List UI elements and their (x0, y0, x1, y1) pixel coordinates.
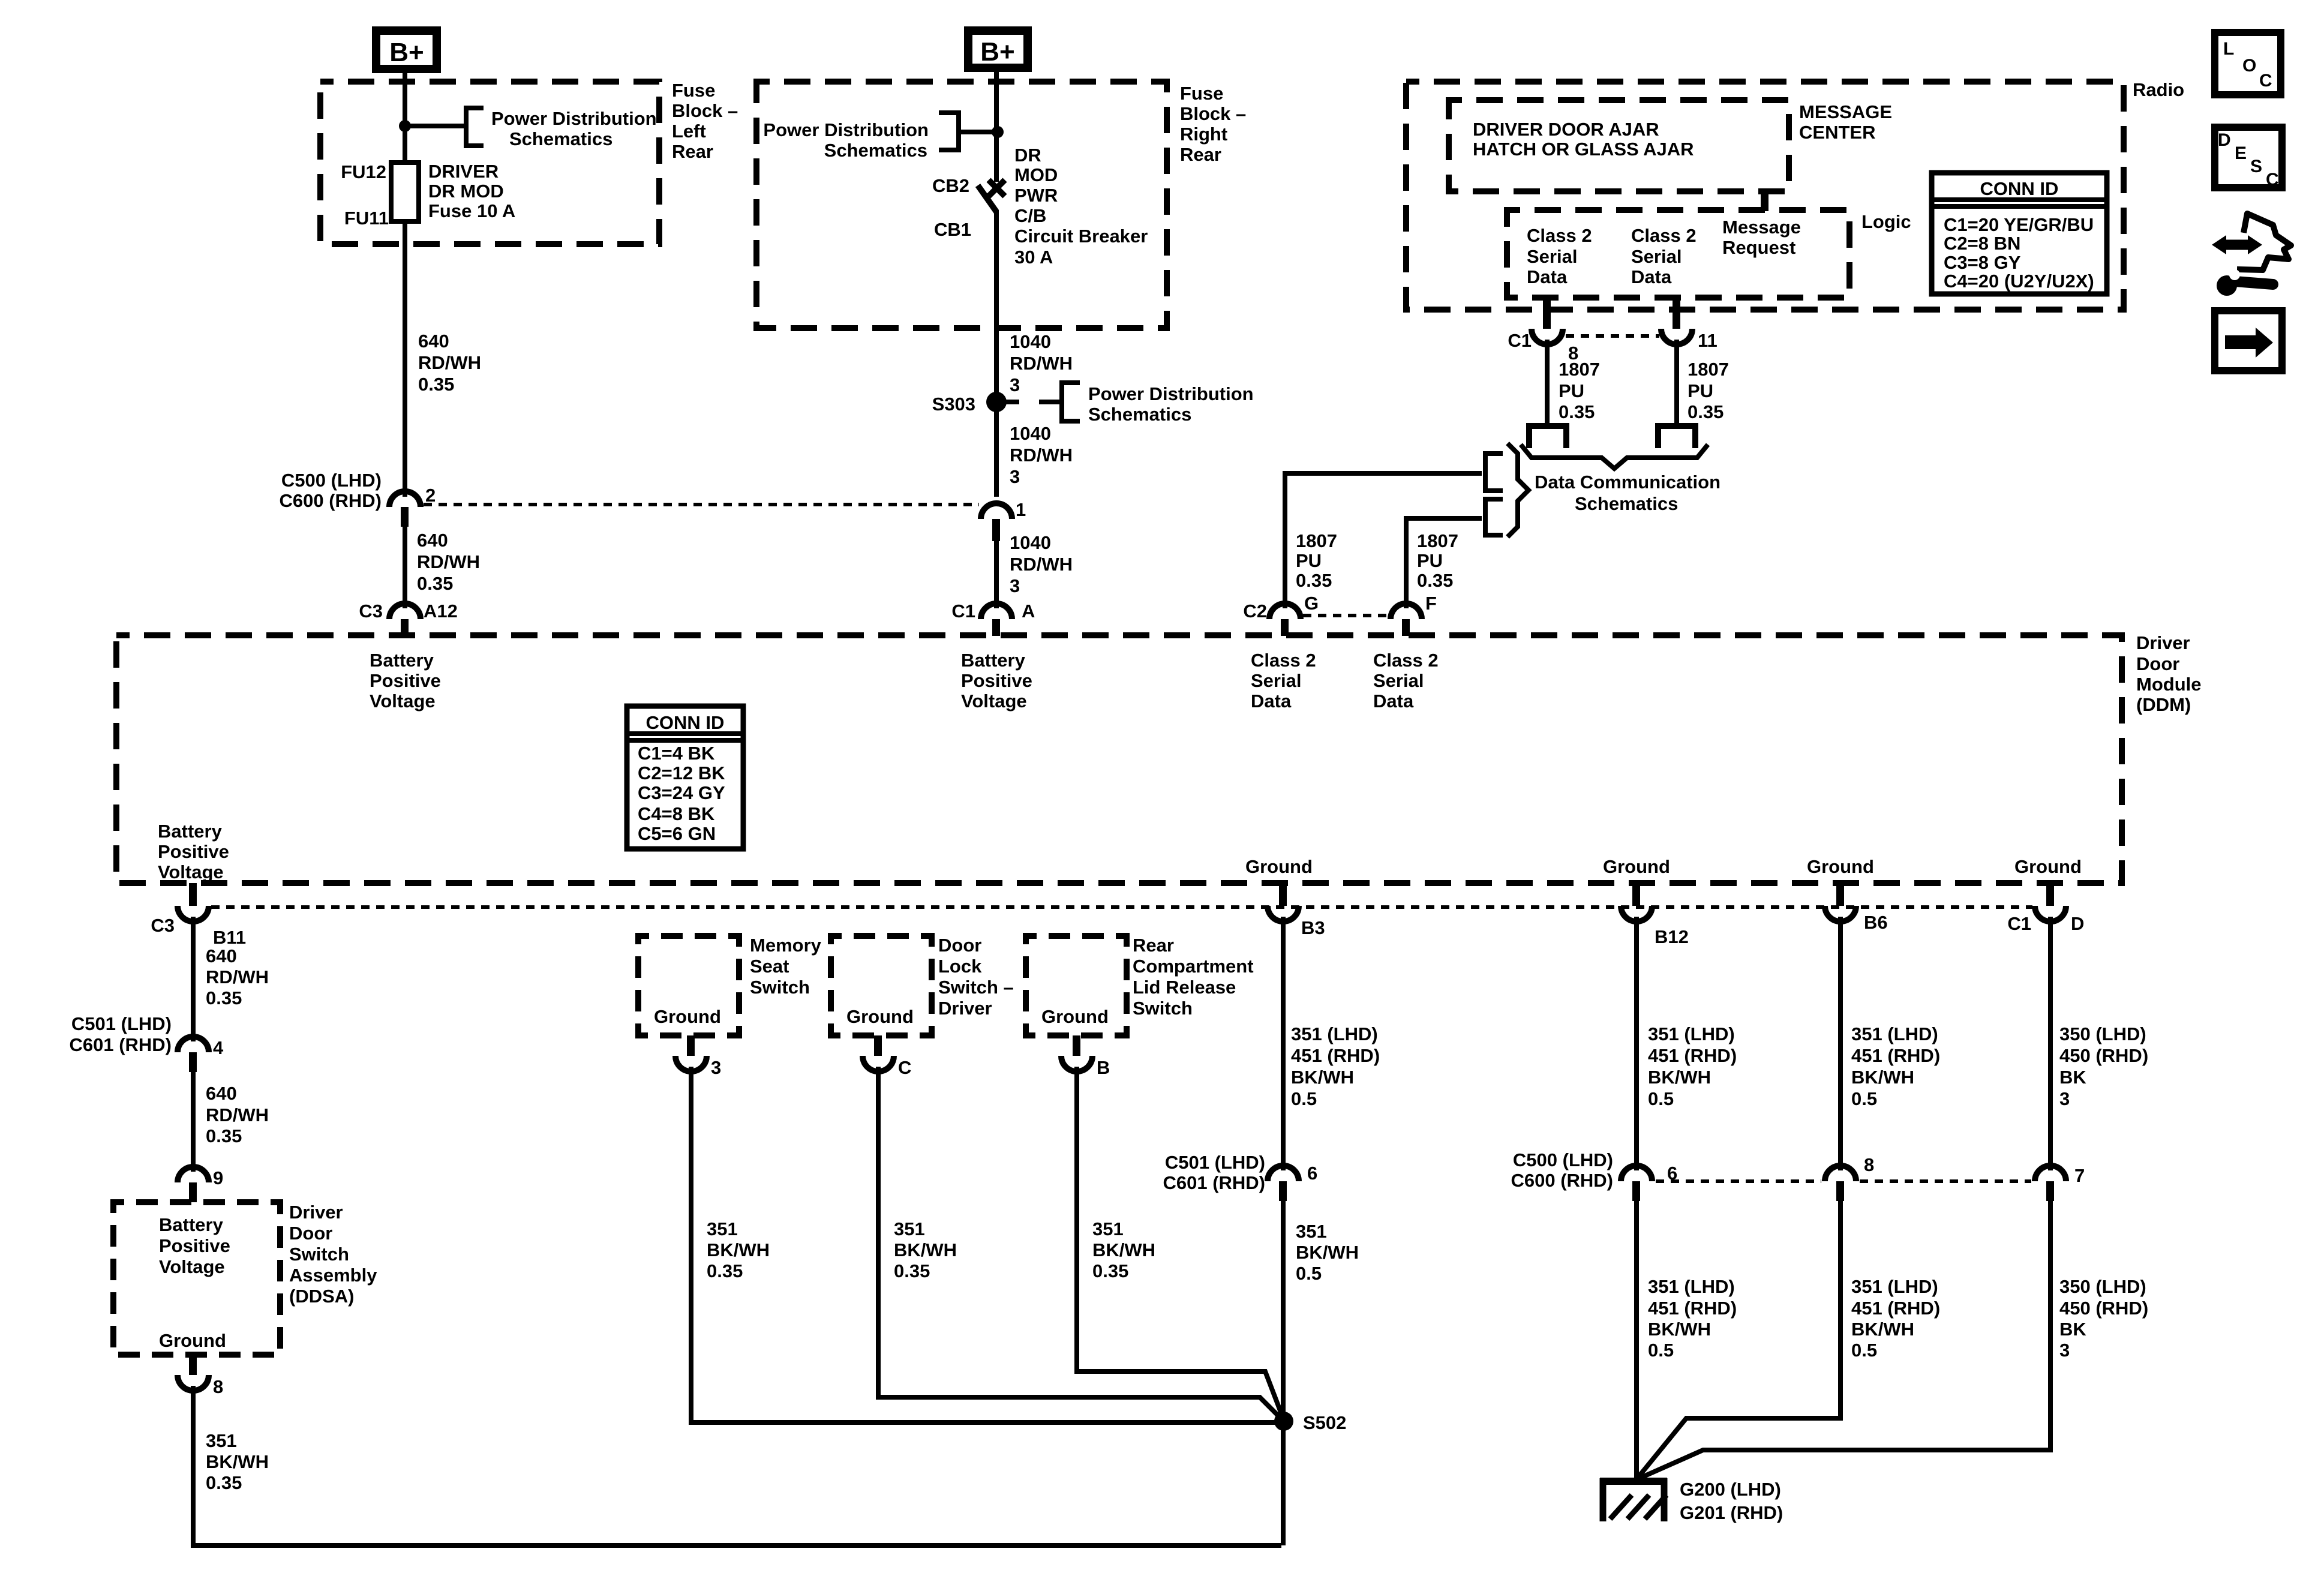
connector C3 / A12 at DDM (359, 601, 458, 636)
svg-text:Fuse 10 A: Fuse 10 A (428, 200, 515, 221)
svg-text:Ground: Ground (159, 1330, 226, 1351)
svg-text:BK/WH: BK/WH (1648, 1319, 1711, 1340)
svg-text:0.5: 0.5 (1648, 1088, 1674, 1109)
dotted connector row line below DDM (211, 905, 2032, 909)
wire pin2 to C3/A12 (403, 527, 407, 608)
svg-text:Rear: Rear (1180, 144, 1221, 165)
svg-text:Left: Left (672, 121, 706, 142)
svg-text:B11: B11 (213, 927, 246, 948)
svg-text:Data: Data (1251, 691, 1292, 712)
svg-text:FU11: FU11 (344, 208, 389, 229)
off-page bracket (G wire, data comm) (1485, 454, 1503, 491)
svg-text:0.35: 0.35 (206, 987, 242, 1008)
svg-text:450 (RHD): 450 (RHD) (2059, 1045, 2148, 1066)
svg-text:4: 4 (213, 1037, 224, 1058)
svg-text:G: G (1304, 593, 1319, 614)
connector C3 / B11 (151, 883, 246, 948)
svg-text:2: 2 (425, 485, 436, 506)
driver door module DDM dashed box (116, 635, 2122, 883)
svg-text:DRIVER: DRIVER (428, 161, 499, 182)
svg-text:350 (LHD): 350 (LHD) (2059, 1023, 2146, 1044)
svg-text:BK/WH: BK/WH (206, 1451, 269, 1472)
connector B6 (1825, 883, 1888, 933)
svg-text:0.35: 0.35 (206, 1472, 242, 1493)
connector C500(LHD)/C600(RHD) pin 6 (1511, 1149, 1677, 1201)
radio pin 11 connector (1661, 298, 1718, 351)
svg-text:B+: B+ (980, 37, 1014, 67)
wire fuse to connector C500 pin2 (403, 221, 407, 497)
svg-text:Voltage: Voltage (159, 1256, 225, 1277)
svg-text:Rear: Rear (1133, 935, 1174, 956)
wire B+ to fuse FU12 (403, 69, 407, 163)
logic dashed box (1507, 210, 1849, 298)
svg-text:Data: Data (1373, 691, 1414, 712)
svg-text:C5=6 GN: C5=6 GN (638, 823, 716, 844)
svg-text:PU: PU (1559, 380, 1584, 401)
svg-text:450 (RHD): 450 (RHD) (2059, 1298, 2148, 1319)
svg-text:351: 351 (707, 1218, 738, 1239)
pin A12 stub into DDM (401, 619, 409, 636)
svg-text:Battery: Battery (370, 650, 434, 671)
svg-text:Ground: Ground (1807, 856, 1874, 877)
svg-text:Radio: Radio (2133, 79, 2184, 100)
svg-text:Door: Door (289, 1223, 332, 1244)
svg-text:(DDSA): (DDSA) (289, 1286, 355, 1307)
svg-text:6: 6 (1307, 1163, 1317, 1184)
svg-text:Memory: Memory (750, 935, 822, 956)
svg-text:Message: Message (1722, 217, 1801, 238)
icon LOC box (2215, 32, 2281, 95)
svg-text:Circuit Breaker: Circuit Breaker (1014, 226, 1148, 247)
svg-text:BK/WH: BK/WH (894, 1239, 957, 1260)
svg-text:1807: 1807 (1417, 530, 1458, 551)
svg-text:3: 3 (2059, 1340, 2070, 1361)
svg-text:S303: S303 (932, 394, 975, 415)
svg-text:Voltage: Voltage (961, 691, 1027, 712)
svg-text:DRIVER DOOR AJAR: DRIVER DOOR AJAR (1473, 119, 1659, 140)
off-page bracket (power distribution at S303) (1062, 383, 1080, 421)
svg-text:Class 2: Class 2 (1527, 225, 1592, 246)
svg-text:C500 (LHD): C500 (LHD) (1513, 1149, 1613, 1170)
svg-text:BK/WH: BK/WH (1296, 1242, 1359, 1263)
svg-text:C4=8 BK: C4=8 BK (638, 803, 715, 824)
connector C501(LHD)/C601(RHD) pin 6 (1163, 1152, 1317, 1201)
svg-text:Class 2: Class 2 (1373, 650, 1439, 671)
svg-text:Logic: Logic (1861, 211, 1911, 232)
svg-text:B6: B6 (1864, 912, 1888, 933)
svg-text:BK/WH: BK/WH (707, 1239, 770, 1260)
svg-text:451 (RHD): 451 (RHD) (1851, 1298, 1940, 1319)
svg-text:Data: Data (1527, 266, 1568, 287)
wire C1/D branch down (2048, 917, 2053, 1170)
connector C501(LHD)/C601(RHD) pin 4 (69, 1013, 224, 1072)
svg-text:Data Communication: Data Communication (1535, 472, 1721, 493)
svg-text:C1: C1 (1508, 330, 1532, 351)
radio dashed box (1406, 82, 2124, 310)
wire DDM pin G up and right (1285, 473, 1482, 608)
dashed connector mate line pins 6-8 (1656, 1179, 1821, 1183)
svg-text:C2: C2 (1243, 601, 1267, 622)
B+ battery feed symbol (left) (376, 31, 437, 69)
svg-text:C600 (RHD): C600 (RHD) (1511, 1170, 1613, 1191)
svg-text:B+: B+ (389, 38, 424, 67)
svg-text:O: O (2242, 56, 2256, 76)
svg-text:CB1: CB1 (934, 219, 971, 240)
svg-text:C: C (898, 1057, 911, 1078)
svg-text:BK/WH: BK/WH (1291, 1067, 1354, 1088)
svg-text:Schematics: Schematics (824, 140, 927, 161)
svg-text:0.35: 0.35 (206, 1125, 242, 1146)
svg-text:Block –: Block – (1180, 103, 1246, 124)
svg-text:Door: Door (938, 935, 981, 956)
connector B3 (1268, 883, 1325, 938)
wire B12 branch down (1634, 917, 1639, 1170)
svg-text:11: 11 (1698, 330, 1718, 351)
svg-text:C1=4 BK: C1=4 BK (638, 743, 715, 764)
svg-text:CENTER: CENTER (1799, 122, 1875, 143)
svg-text:351 (LHD): 351 (LHD) (1648, 1276, 1735, 1297)
svg-text:0.35: 0.35 (707, 1260, 743, 1281)
svg-text:C3=24 GY: C3=24 GY (638, 782, 725, 803)
svg-text:Compartment: Compartment (1133, 956, 1254, 977)
svg-text:8: 8 (1864, 1154, 1874, 1175)
svg-text:Assembly: Assembly (289, 1265, 377, 1286)
svg-text:C2=12 BK: C2=12 BK (638, 763, 725, 784)
svg-text:1040: 1040 (1010, 423, 1051, 444)
svg-text:0.35: 0.35 (1296, 570, 1332, 591)
svg-text:Seat: Seat (750, 956, 789, 977)
svg-text:Serial: Serial (1251, 670, 1301, 691)
svg-text:C1: C1 (951, 601, 975, 622)
conn id table (radio) (1932, 173, 2107, 294)
connector C1 / A at DDM (951, 601, 1035, 636)
svg-text:Power Distribution: Power Distribution (1088, 383, 1254, 404)
off-page bracket (power distribution, left fuse block) (466, 108, 484, 146)
connector pin 7 (2035, 1165, 2085, 1201)
svg-text:RD/WH: RD/WH (418, 352, 481, 373)
wire breaker down through S303 to pin 1 (994, 210, 999, 497)
dashed connector mate line pins 8-11 (1566, 334, 1659, 338)
svg-text:Positive: Positive (961, 670, 1032, 691)
svg-text:Driver: Driver (2136, 632, 2190, 653)
connector pin 8 (B6) (1825, 1154, 1874, 1201)
svg-text:0.35: 0.35 (418, 374, 454, 395)
svg-text:350 (LHD): 350 (LHD) (2059, 1276, 2146, 1297)
svg-text:Switch: Switch (1133, 998, 1193, 1019)
svg-text:Schematics: Schematics (1088, 404, 1191, 425)
svg-text:3: 3 (2059, 1088, 2070, 1109)
svg-text:MESSAGE: MESSAGE (1799, 101, 1892, 122)
svg-text:Request: Request (1722, 237, 1795, 258)
svg-text:PU: PU (1417, 550, 1443, 571)
svg-text:451 (RHD): 451 (RHD) (1648, 1045, 1737, 1066)
svg-text:PU: PU (1296, 550, 1322, 571)
wire tap to bracket (405, 124, 466, 128)
svg-text:451 (RHD): 451 (RHD) (1648, 1298, 1737, 1319)
svg-text:CONN ID: CONN ID (1980, 178, 2059, 199)
svg-text:351 (LHD): 351 (LHD) (1648, 1023, 1735, 1044)
svg-text:Ground: Ground (1041, 1006, 1109, 1027)
svg-text:640: 640 (206, 1083, 237, 1104)
svg-text:Right: Right (1180, 124, 1227, 145)
svg-text:PWR: PWR (1014, 185, 1058, 206)
svg-text:351: 351 (1296, 1221, 1327, 1242)
connector pin 8 below DDSA (178, 1355, 223, 1397)
icon forward arrow box (2215, 311, 2282, 371)
driver door switch assembly DDSA dashed box (113, 1202, 280, 1355)
svg-text:1807: 1807 (1688, 359, 1729, 380)
svg-text:RD/WH: RD/WH (1010, 554, 1073, 575)
svg-text:Ground: Ground (846, 1006, 914, 1027)
svg-text:1807: 1807 (1559, 359, 1600, 380)
node: tap to power distribution (992, 126, 1004, 138)
svg-text:3: 3 (1010, 575, 1020, 596)
svg-text:Schematics: Schematics (1575, 493, 1678, 514)
off-page bracket (F wire, data comm) (1485, 499, 1503, 535)
svg-text:1807: 1807 (1296, 530, 1337, 551)
off-page bracket (power distribution, right fuse block) (939, 113, 959, 150)
svg-text:0.5: 0.5 (1291, 1088, 1317, 1109)
svg-text:Battery: Battery (961, 650, 1026, 671)
svg-text:351: 351 (1092, 1218, 1124, 1239)
off-page terminal symbol (pin 8 wire) (1529, 426, 1566, 448)
door lock switch driver dashed box (831, 936, 932, 1035)
svg-text:RD/WH: RD/WH (206, 1104, 269, 1125)
radio pin C1-8 connector (1508, 298, 1578, 364)
svg-text:Fuse: Fuse (672, 80, 715, 101)
svg-text:Rear: Rear (672, 141, 713, 162)
wire pin 8 down to bottom run (193, 1386, 1281, 1545)
svg-text:Door: Door (2136, 653, 2179, 674)
svg-text:MOD: MOD (1014, 164, 1058, 185)
svg-text:C1=20 YE/GR/BU: C1=20 YE/GR/BU (1944, 214, 2094, 235)
wire B6 branch down (1838, 917, 1843, 1170)
svg-text:DR MOD: DR MOD (428, 181, 504, 202)
svg-text:DR: DR (1014, 145, 1041, 166)
svg-text:BK: BK (2059, 1319, 2086, 1340)
svg-text:351 (LHD): 351 (LHD) (1851, 1276, 1938, 1297)
svg-text:9: 9 (213, 1167, 223, 1188)
svg-text:RD/WH: RD/WH (417, 551, 480, 572)
svg-text:C600 (RHD): C600 (RHD) (279, 490, 382, 511)
svg-text:0.35: 0.35 (1417, 570, 1453, 591)
off-page terminal symbol (pin 11 wire) (1658, 426, 1695, 448)
rear compartment lid release switch dashed box (1026, 936, 1127, 1035)
svg-text:C3=8 GY: C3=8 GY (1944, 252, 2021, 273)
svg-text:Power Distribution: Power Distribution (491, 108, 657, 129)
svg-text:C501 (LHD): C501 (LHD) (1165, 1152, 1265, 1173)
wire pin8 down to ground (1638, 1201, 1840, 1477)
svg-text:C501 (LHD): C501 (LHD) (71, 1013, 172, 1034)
wire pin C to S502 (878, 1067, 1283, 1420)
svg-text:PU: PU (1688, 380, 1713, 401)
svg-text:RD/WH: RD/WH (1010, 445, 1073, 466)
svg-text:Battery: Battery (159, 1214, 224, 1235)
svg-text:0.35: 0.35 (894, 1260, 930, 1281)
svg-text:RD/WH: RD/WH (206, 966, 269, 987)
dashed connector mate line pins 8-7 (1860, 1179, 2031, 1183)
svg-text:351: 351 (206, 1430, 237, 1451)
svg-text:Schematics: Schematics (509, 128, 612, 149)
node: tap to power distribution (399, 120, 411, 132)
message center dashed box (1449, 100, 1789, 191)
svg-text:BK/WH: BK/WH (1648, 1067, 1711, 1088)
svg-text:0.5: 0.5 (1648, 1340, 1674, 1361)
wire B3 branch down (1281, 917, 1286, 1170)
svg-text:Ground: Ground (1245, 856, 1313, 877)
circuit breaker CB2/CB1 DR MOD PWR C/B 30A (932, 145, 1148, 268)
fuse block right rear dashed box (756, 82, 1167, 328)
icon repair: double arrow (2212, 214, 2291, 296)
svg-text:Lid Release: Lid Release (1133, 977, 1236, 998)
svg-text:S502: S502 (1303, 1412, 1346, 1433)
svg-text:1040: 1040 (1010, 532, 1051, 553)
wire pin 11 down (1674, 340, 1679, 424)
horizontal brace to data communication schematics (1521, 445, 1708, 469)
svg-text:0.5: 0.5 (1851, 1088, 1877, 1109)
wire pin6 down to ground (1634, 1201, 1639, 1479)
svg-text:3: 3 (1010, 466, 1020, 487)
icon repair: outline shape (2237, 214, 2291, 270)
svg-text:1: 1 (1016, 499, 1026, 520)
svg-text:451 (RHD): 451 (RHD) (1291, 1045, 1380, 1066)
wire pin B to S502 (1077, 1067, 1284, 1420)
connector B12 (1621, 883, 1689, 947)
svg-text:3: 3 (711, 1057, 721, 1078)
svg-text:351 (LHD): 351 (LHD) (1851, 1023, 1938, 1044)
svg-text:C3: C3 (359, 601, 383, 622)
icon DESC box (2215, 127, 2282, 190)
svg-text:Voltage: Voltage (158, 861, 224, 882)
svg-text:C2=8 BN: C2=8 BN (1944, 233, 2020, 254)
svg-text:C/B: C/B (1014, 205, 1046, 226)
svg-text:D: D (2218, 130, 2231, 150)
svg-text:640: 640 (417, 530, 448, 551)
svg-text:A: A (1022, 601, 1035, 622)
connector F at DDM (1391, 593, 1437, 636)
svg-text:Power Distribution: Power Distribution (763, 119, 929, 140)
wire pin1 to C1/A (994, 541, 999, 608)
memory seat switch dashed box (638, 936, 739, 1035)
svg-text:Serial: Serial (1373, 670, 1424, 691)
svg-text:D: D (2071, 913, 2084, 934)
svg-text:B: B (1097, 1057, 1110, 1078)
connector pin C (863, 1035, 911, 1078)
svg-text:BK/WH: BK/WH (1851, 1319, 1914, 1340)
svg-text:30 A: 30 A (1014, 247, 1053, 268)
svg-text:Driver: Driver (289, 1202, 343, 1223)
icon repair: wrench (2235, 281, 2273, 284)
svg-text:8: 8 (213, 1376, 223, 1397)
wire pin 8 down (1545, 340, 1550, 424)
connector pin 3 (675, 1035, 721, 1078)
svg-text:C3: C3 (151, 915, 175, 936)
svg-text:A12: A12 (424, 601, 458, 622)
svg-text:0.35: 0.35 (1688, 401, 1724, 422)
svg-text:Serial: Serial (1631, 246, 1682, 267)
svg-text:S: S (2250, 157, 2262, 176)
svg-text:Module: Module (2136, 674, 2202, 695)
svg-text:Serial: Serial (1527, 246, 1577, 267)
svg-text:FU12: FU12 (341, 161, 386, 182)
connector C500(LHD)/C600(RHD) pin 1 (981, 499, 1026, 541)
svg-text:640: 640 (206, 945, 237, 966)
svg-text:L: L (2223, 39, 2234, 59)
svg-text:C4=20 (U2Y/U2X): C4=20 (U2Y/U2X) (1944, 271, 2094, 292)
wire pin4 to pin9 (191, 1072, 196, 1172)
fuse FU12/FU11 DRIVER DR MOD 10A (341, 161, 515, 229)
svg-text:C: C (2266, 170, 2279, 190)
svg-text:B12: B12 (1655, 926, 1689, 947)
B+ battery feed symbol (right) (968, 31, 1028, 68)
wire B+ to breaker (994, 68, 999, 182)
wire pin7 down to ground (1640, 1201, 2050, 1478)
svg-text:Switch: Switch (289, 1244, 349, 1265)
wire bracket to tap (961, 130, 998, 134)
svg-text:Data: Data (1631, 266, 1672, 287)
svg-text:1040: 1040 (1010, 331, 1051, 352)
svg-text:Ground: Ground (2014, 856, 2082, 877)
svg-text:0.35: 0.35 (1559, 401, 1595, 422)
svg-text:Battery: Battery (158, 821, 223, 842)
svg-text:0.35: 0.35 (417, 573, 453, 594)
svg-text:G200 (LHD): G200 (LHD) (1680, 1479, 1781, 1500)
svg-text:Switch –: Switch – (938, 977, 1014, 998)
svg-text:C601 (RHD): C601 (RHD) (1163, 1172, 1265, 1193)
svg-text:CB2: CB2 (932, 175, 969, 196)
svg-text:Fuse: Fuse (1180, 83, 1223, 104)
svg-text:Positive: Positive (159, 1235, 230, 1256)
svg-text:Class 2: Class 2 (1251, 650, 1316, 671)
svg-text:0.5: 0.5 (1296, 1263, 1322, 1284)
svg-text:RD/WH: RD/WH (1010, 353, 1073, 374)
svg-text:HATCH OR GLASS AJAR: HATCH OR GLASS AJAR (1473, 139, 1694, 160)
svg-text:7: 7 (2074, 1165, 2085, 1186)
svg-text:BK/WH: BK/WH (1092, 1239, 1155, 1260)
svg-text:351 (LHD): 351 (LHD) (1291, 1023, 1378, 1044)
svg-text:Ground: Ground (654, 1006, 721, 1027)
svg-text:Switch: Switch (750, 977, 810, 998)
wire B11 branch down (191, 917, 196, 1041)
dashed connector mate line G-F (1303, 614, 1388, 617)
svg-text:0.5: 0.5 (1851, 1340, 1877, 1361)
svg-text:G201 (RHD): G201 (RHD) (1680, 1502, 1783, 1523)
svg-text:Lock: Lock (938, 956, 982, 977)
wire DDM pin F up and right (1406, 518, 1482, 608)
svg-text:Positive: Positive (370, 670, 441, 691)
svg-text:351: 351 (894, 1218, 925, 1239)
svg-text:Class 2: Class 2 (1631, 225, 1697, 246)
svg-text:Positive: Positive (158, 841, 229, 862)
svg-text:C601 (RHD): C601 (RHD) (69, 1034, 172, 1055)
svg-text:640: 640 (418, 331, 449, 352)
wire pin6 down to S502 (1281, 1201, 1286, 1545)
wire pin 3 to S502 (691, 1067, 1281, 1422)
dashed connector mate line between pin 2 and pin 1 (424, 503, 979, 506)
ground symbol G200/G201 (1600, 1478, 1783, 1523)
fuse block left rear dashed box (320, 82, 659, 244)
svg-text:(DDM): (DDM) (2136, 694, 2191, 715)
svg-text:C500 (LHD): C500 (LHD) (281, 470, 382, 491)
svg-text:BK: BK (2059, 1067, 2086, 1088)
svg-text:B3: B3 (1301, 917, 1325, 938)
wire stubs S303 to bracket (996, 400, 1019, 404)
splice node S303 (986, 392, 1007, 412)
svg-text:Block –: Block – (672, 100, 738, 121)
svg-text:BK/WH: BK/WH (1851, 1067, 1914, 1088)
svg-text:3: 3 (1010, 374, 1020, 395)
connector C2 / G at DDM (1243, 593, 1319, 636)
